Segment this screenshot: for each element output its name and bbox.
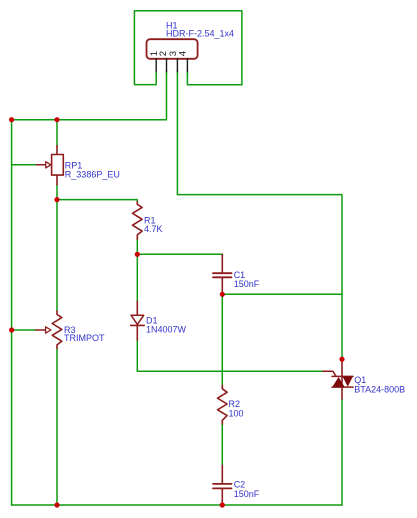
resistor R1 bbox=[133, 202, 143, 240]
svg-text:4: 4 bbox=[177, 51, 188, 56]
trimpot R3 bbox=[36, 311, 62, 348]
resistor R2 bbox=[218, 385, 228, 424]
capacitor C1 bbox=[213, 254, 232, 294]
svg-text:HDR-F-2.54_1x4: HDR-F-2.54_1x4 bbox=[166, 28, 234, 38]
connector H1 body bbox=[147, 39, 198, 59]
wire R3 wiper from left rail bbox=[12, 329, 36, 331]
junction at C2 bottom rail bbox=[220, 502, 225, 507]
connector H1 pin 4 stub bbox=[186, 59, 188, 72]
triac Q1 bbox=[323, 362, 353, 399]
connector H1 pin 1 stub bbox=[155, 59, 157, 72]
svg-text:1N4007W: 1N4007W bbox=[146, 324, 187, 334]
trimpot RP1 bbox=[36, 146, 63, 185]
junction at R3 bottom rail bbox=[54, 502, 59, 507]
wire pin2 to left rail bbox=[12, 72, 167, 120]
wire R1/D1 node to C1 top bbox=[137, 253, 222, 256]
capacitor C2 bbox=[213, 466, 232, 505]
wire pin1-pin4 loop around H1 bbox=[134, 11, 242, 85]
wire node above RP1 bbox=[56, 120, 58, 146]
svg-text:100: 100 bbox=[229, 409, 244, 419]
wire C1 node down to R2 top bbox=[221, 294, 223, 385]
connector H1 pin 2 stub bbox=[166, 59, 168, 72]
svg-text:150nF: 150nF bbox=[234, 489, 260, 499]
wire pin3 to Q1 top bbox=[177, 72, 342, 362]
wire RP1 wiper from left rail bbox=[12, 164, 37, 166]
svg-text:R_3386P_EU: R_3386P_EU bbox=[65, 170, 120, 180]
svg-text:TRIMPOT: TRIMPOT bbox=[64, 333, 105, 343]
wire R3 bottom to bottom rail bbox=[56, 348, 58, 505]
wire Q1 bottom to bottom rail bbox=[341, 399, 343, 505]
junction at R1/D1 node bbox=[135, 252, 140, 257]
wire R2 bottom to C2 top bbox=[221, 424, 223, 466]
svg-text:Q1: Q1 bbox=[354, 375, 366, 385]
junction at R3 wiper/left rail bbox=[9, 327, 14, 332]
junction above Q1 bbox=[339, 357, 344, 362]
wire RP1 bottom to R3 top bbox=[56, 185, 58, 311]
wire D1 bottom to Q1 gate bbox=[137, 340, 322, 371]
junction at C1 bottom node bbox=[220, 292, 225, 297]
svg-text:R2: R2 bbox=[229, 399, 241, 409]
diode D1 bbox=[131, 301, 145, 340]
svg-text:4.7K: 4.7K bbox=[144, 224, 163, 234]
svg-text:150nF: 150nF bbox=[234, 279, 260, 289]
connector H1 pin 3 stub bbox=[176, 59, 178, 72]
wire left rail bbox=[11, 120, 13, 505]
wire bottom rail bbox=[12, 504, 342, 506]
svg-text:BTA24-800B: BTA24-800B bbox=[354, 385, 405, 395]
junction at RP1 top node bbox=[54, 117, 59, 122]
wire C1 bottom node to triac rail bbox=[222, 293, 342, 295]
wire node RP1/R1 to R1 top bbox=[57, 200, 137, 202]
wire R1 bottom to D1 top bbox=[136, 240, 138, 302]
junction at RP1 bottom node bbox=[54, 197, 59, 202]
junction at pin2/left rail bbox=[9, 117, 14, 122]
